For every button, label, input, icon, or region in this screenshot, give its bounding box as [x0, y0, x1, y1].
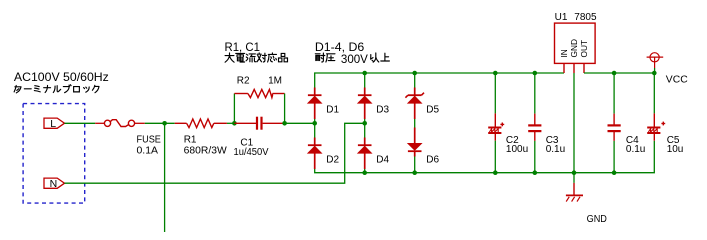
svg-text:R1: R1	[184, 135, 197, 146]
wire GND pin down	[573, 73, 575, 173]
comment kanji ijou	[371, 53, 379, 62]
svg-text:R2: R2	[237, 75, 250, 86]
wire C1 to bridge	[285, 122, 315, 124]
top rail (DC+) left	[315, 73, 564, 123]
node C3 top	[533, 71, 538, 76]
node C4 top	[612, 71, 617, 76]
node VCC	[652, 71, 657, 76]
U1 pin OUT	[583, 63, 585, 73]
svg-text:300V: 300V	[341, 52, 368, 66]
svg-text:N: N	[50, 178, 58, 190]
node C2 top	[493, 71, 498, 76]
node D3/D4 mid	[362, 121, 367, 126]
svg-text:FUSE: FUSE	[137, 135, 162, 146]
capacitor C3 column	[534, 73, 536, 114]
svg-text:1M: 1M	[268, 75, 282, 86]
svg-text:R1, C1: R1, C1	[225, 40, 261, 54]
capacitor C1	[234, 122, 256, 124]
ground symbol	[573, 173, 575, 183]
comment katakana terminal block	[14, 85, 21, 92]
U1 pin IN	[563, 63, 565, 73]
terminal block dashed enclosure	[23, 104, 85, 204]
svg-text:0.1u: 0.1u	[546, 144, 565, 155]
svg-text:U1: U1	[555, 12, 568, 23]
svg-text:GND: GND	[587, 214, 607, 225]
wire branch down right	[284, 94, 286, 124]
node C1 left	[232, 121, 237, 126]
svg-text:IN: IN	[559, 49, 569, 57]
node GND rail	[572, 170, 577, 175]
fuse F1	[95, 122, 104, 124]
wire R1 to node	[227, 122, 235, 124]
node D3 top	[362, 71, 367, 76]
connector pin L	[44, 118, 65, 128]
svg-text:100u: 100u	[506, 144, 528, 155]
bottom rail (DC-)	[315, 123, 655, 172]
wire D3 column	[364, 73, 366, 123]
node D5 top	[412, 71, 417, 76]
svg-text:10u: 10u	[667, 144, 684, 155]
svg-text:D5: D5	[426, 104, 439, 115]
capacitor C5 column	[653, 73, 655, 113]
wire stub down to edge	[164, 123, 166, 232]
wire L to fuse	[65, 122, 96, 124]
svg-text:D1: D1	[326, 104, 339, 115]
svg-text:D3: D3	[376, 104, 389, 115]
svg-text:0.1A: 0.1A	[137, 145, 159, 156]
diode D2	[314, 138, 316, 146]
diode D6	[414, 128, 416, 144]
op U1 7805 regulator box	[555, 23, 596, 63]
node D4 bottom	[362, 170, 367, 175]
comment kanji daidenryu	[225, 53, 234, 62]
wire branch up left	[233, 94, 235, 124]
svg-text:0.1u: 0.1u	[626, 144, 645, 155]
node D6 bottom	[412, 170, 417, 175]
capacitor C4 column	[613, 73, 615, 114]
node C2 bottom	[493, 170, 498, 175]
wire fuse to junction	[145, 122, 175, 124]
node C3 bottom	[533, 170, 538, 175]
svg-text:AC100V 50/60Hz: AC100V 50/60Hz	[14, 70, 109, 84]
svg-text:7805: 7805	[574, 12, 597, 23]
svg-text:OUT: OUT	[579, 40, 589, 58]
svg-text:1u/450V: 1u/450V	[234, 147, 269, 158]
wire N line	[65, 123, 365, 183]
U1 pin GND	[573, 63, 575, 73]
connector pin N	[44, 178, 65, 188]
power symbol VCC	[650, 53, 659, 62]
node C4 bottom	[612, 170, 617, 175]
junction fuse node	[162, 121, 167, 126]
diode D1	[314, 88, 316, 96]
svg-text:L: L	[50, 118, 56, 130]
svg-text:D6: D6	[426, 154, 439, 165]
svg-text:GND: GND	[569, 39, 579, 57]
svg-text:D2: D2	[326, 154, 339, 165]
capacitor C2 column	[494, 73, 496, 113]
zener diode D5	[414, 88, 416, 96]
svg-text:D4: D4	[376, 154, 389, 165]
node D1/D2 mid	[312, 121, 317, 126]
svg-text:680R/3W: 680R/3W	[184, 145, 228, 156]
node C1 right	[282, 121, 287, 126]
wire D5 column	[414, 73, 416, 128]
comment kanji taiatsu	[315, 53, 325, 62]
resistor R1	[175, 122, 187, 124]
wire OUT rail	[584, 72, 654, 74]
diode D4	[364, 123, 366, 172]
svg-text:VCC: VCC	[666, 74, 688, 85]
diode D3	[364, 88, 366, 96]
resistor R2	[234, 93, 248, 95]
